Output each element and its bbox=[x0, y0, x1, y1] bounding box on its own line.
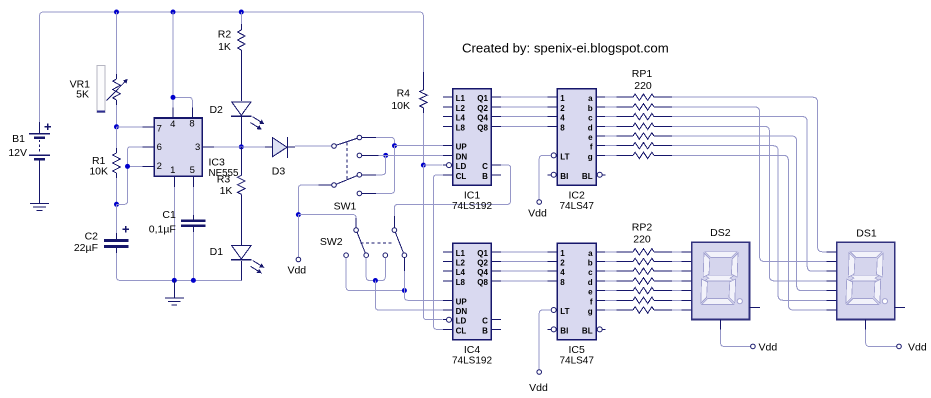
wire Vdd node to terminal bbox=[297, 215, 299, 257]
svg-text:f: f bbox=[590, 297, 593, 306]
wire node to R1 bbox=[116, 127, 118, 148]
svg-text:R4: R4 bbox=[397, 88, 411, 100]
svg-text:c: c bbox=[588, 268, 593, 277]
node Vdd junction bbox=[296, 212, 301, 217]
node pin3-D2-D3-R3 bbox=[239, 144, 244, 149]
wire node to IC4 DN bbox=[375, 281, 443, 311]
svg-text:3: 3 bbox=[195, 142, 200, 153]
svg-text:0,1µF: 0,1µF bbox=[149, 223, 176, 235]
wire SW1 pole2 to Vdd node bbox=[298, 185, 331, 215]
svg-text:220: 220 bbox=[634, 80, 652, 92]
wire SW1 throw1b to DN node bbox=[362, 154, 378, 156]
svg-text:RP1: RP1 bbox=[632, 68, 653, 80]
svg-text:BL: BL bbox=[582, 326, 593, 335]
svg-text:22µF: 22µF bbox=[74, 242, 98, 254]
svg-text:f: f bbox=[590, 143, 593, 152]
label R4 bbox=[397, 88, 411, 100]
svg-text:e: e bbox=[588, 288, 593, 297]
label D2 bbox=[209, 104, 223, 116]
label R3 1K bbox=[220, 185, 233, 197]
svg-text:b: b bbox=[588, 259, 593, 268]
label B1 bbox=[12, 133, 25, 145]
counter IC1 74LS192 bbox=[443, 89, 501, 212]
wire rail to pins 4 8 bbox=[173, 12, 192, 108]
svg-text:RP2: RP2 bbox=[632, 222, 653, 234]
svg-text:IC1: IC1 bbox=[464, 190, 481, 202]
node ground junction bbox=[172, 278, 177, 283]
ground battery bbox=[30, 203, 49, 210]
svg-text:UP: UP bbox=[456, 143, 468, 152]
svg-text:B1: B1 bbox=[12, 133, 25, 145]
label SW1 bbox=[334, 200, 357, 212]
svg-text:74LS47: 74LS47 bbox=[559, 355, 594, 366]
svg-text:C: C bbox=[482, 317, 488, 326]
svg-text:74LS192: 74LS192 bbox=[452, 355, 492, 366]
svg-text:BL: BL bbox=[582, 172, 593, 181]
wire C2 to ground rail bbox=[117, 253, 242, 280]
svg-text:CL: CL bbox=[456, 172, 467, 181]
svg-text:BI: BI bbox=[560, 326, 568, 335]
switch SW2 bbox=[344, 228, 407, 258]
label DS1 bbox=[856, 228, 877, 240]
LED D1 bbox=[231, 246, 264, 274]
capacitor C2 bbox=[104, 204, 129, 253]
label RP1 bbox=[632, 68, 653, 80]
wire segment d to DS1 bbox=[672, 126, 827, 281]
svg-text:1: 1 bbox=[560, 249, 565, 258]
wire segment a to DS1 bbox=[672, 97, 827, 252]
wire R1 to node bbox=[116, 178, 118, 204]
svg-text:d: d bbox=[588, 123, 593, 132]
svg-text:1K: 1K bbox=[218, 41, 231, 53]
wire D1 to ground rail bbox=[240, 261, 242, 281]
wire IC1 Q8 to IC2 bbox=[501, 125, 548, 127]
svg-text:C1: C1 bbox=[162, 209, 176, 221]
node rail-VR1 junction bbox=[114, 10, 119, 15]
counter IC4 74LS192 bbox=[443, 243, 501, 366]
svg-text:D2: D2 bbox=[209, 104, 223, 116]
svg-text:1: 1 bbox=[560, 94, 565, 103]
capacitor C1 bbox=[181, 215, 206, 232]
label R2 bbox=[218, 28, 232, 40]
svg-text:Q1: Q1 bbox=[477, 94, 488, 103]
resistor R4 bbox=[420, 72, 428, 113]
switch SW1 bbox=[332, 135, 362, 196]
resistor R1 bbox=[113, 148, 121, 178]
svg-text:Vdd: Vdd bbox=[529, 382, 548, 394]
label RP1 220 bbox=[634, 80, 652, 92]
title text bbox=[462, 40, 669, 55]
wire LD node to IC4 LD bbox=[423, 165, 442, 320]
node pin4-8 branch bbox=[171, 95, 176, 100]
wire pin3 to node bbox=[214, 146, 241, 148]
svg-text:8: 8 bbox=[560, 123, 565, 132]
svg-text:UP: UP bbox=[456, 297, 468, 306]
label Vdd IC5 bbox=[529, 382, 548, 394]
svg-text:IC2: IC2 bbox=[569, 190, 586, 202]
wire IC5 LT to Vdd bbox=[539, 310, 551, 370]
pin 3 label bbox=[195, 142, 200, 153]
wire VR1 to node bbox=[116, 105, 118, 127]
label Vdd IC2 bbox=[528, 208, 547, 220]
svg-text:B: B bbox=[482, 326, 488, 335]
node rail-R2 junction bbox=[239, 10, 244, 15]
wire D3 to SW1 bbox=[295, 145, 331, 147]
svg-text:g: g bbox=[588, 307, 593, 316]
svg-text:Vdd: Vdd bbox=[908, 341, 927, 353]
wire IC1 Q1 to IC2 bbox=[501, 96, 548, 98]
wire SW2 pole2 to carry net bbox=[394, 169, 510, 228]
label RP2 220 bbox=[633, 234, 651, 246]
wire segment c to DS1 bbox=[672, 117, 827, 272]
label DS2 bbox=[710, 227, 731, 239]
svg-text:DN: DN bbox=[456, 152, 468, 161]
node C1 ground bbox=[191, 278, 196, 283]
pin 6 label bbox=[157, 142, 162, 153]
display DS2 bbox=[681, 242, 777, 353]
label D1 bbox=[210, 246, 224, 258]
node VR1-R1-pin7 bbox=[114, 124, 119, 129]
svg-text:5: 5 bbox=[190, 165, 195, 176]
svg-text:LT: LT bbox=[560, 152, 569, 161]
wire Vdd node to SW2 pole1 bbox=[298, 215, 356, 228]
svg-text:Q4: Q4 bbox=[477, 268, 488, 277]
svg-text:220: 220 bbox=[633, 234, 651, 246]
svg-text:D3: D3 bbox=[272, 166, 286, 178]
svg-text:7: 7 bbox=[157, 124, 162, 135]
svg-text:8: 8 bbox=[189, 118, 194, 129]
label R1 10K bbox=[89, 165, 108, 177]
svg-text:L8: L8 bbox=[456, 123, 466, 132]
wire segment b to DS1 bbox=[672, 107, 827, 262]
decoder IC5 74LS47 bbox=[548, 243, 606, 366]
svg-text:IC4: IC4 bbox=[464, 344, 481, 356]
battery B1 bbox=[29, 122, 51, 203]
label R3 bbox=[217, 173, 231, 185]
svg-text:Vdd: Vdd bbox=[759, 341, 778, 353]
pin 7 label bbox=[157, 124, 162, 135]
wire UP node to throw2b bbox=[362, 146, 395, 194]
node IC4 UP junction bbox=[402, 288, 407, 293]
wire pin1 down bbox=[173, 187, 175, 280]
wire IC1 Q4 to IC2 bbox=[501, 116, 548, 118]
svg-text:L8: L8 bbox=[456, 278, 466, 287]
label D3 bbox=[272, 166, 286, 178]
svg-text:DN: DN bbox=[456, 307, 468, 316]
svg-text:C2: C2 bbox=[85, 230, 99, 242]
wire D2 to node bbox=[240, 117, 242, 147]
svg-text:L2: L2 bbox=[456, 259, 466, 268]
svg-text:b: b bbox=[588, 104, 593, 113]
node DN junction bbox=[383, 153, 388, 158]
svg-text:10K: 10K bbox=[391, 100, 410, 112]
diode D3 bbox=[241, 137, 295, 158]
label C2 bbox=[85, 230, 99, 242]
svg-text:C: C bbox=[482, 162, 488, 171]
potentiometer VR1 bbox=[97, 66, 128, 113]
svg-text:LD: LD bbox=[456, 162, 467, 171]
svg-text:4: 4 bbox=[560, 268, 565, 277]
wire IC2 LT to Vdd bbox=[539, 155, 551, 199]
svg-text:g: g bbox=[588, 152, 593, 161]
wire IC4 Q2 to IC5 bbox=[501, 261, 548, 263]
LED D2 bbox=[231, 102, 264, 130]
label R4 10K bbox=[391, 100, 410, 112]
svg-text:DS2: DS2 bbox=[710, 227, 731, 239]
svg-text:1K: 1K bbox=[220, 185, 233, 197]
label VR1 5K bbox=[76, 89, 89, 101]
wire node to pin2/6 bbox=[117, 147, 143, 204]
timer IC3 NE555 bbox=[143, 108, 214, 188]
svg-text:Q2: Q2 bbox=[477, 104, 488, 113]
wire IC1 C to SW2 net bbox=[501, 165, 511, 170]
label R2 1K bbox=[218, 41, 231, 53]
terminal Vdd SW bbox=[296, 257, 301, 262]
wire rail to VR1 bbox=[116, 12, 118, 74]
svg-text:4: 4 bbox=[170, 119, 175, 130]
label R1 bbox=[92, 155, 106, 167]
label VR1 bbox=[70, 79, 91, 91]
label SW2 bbox=[320, 236, 343, 248]
pin 4 label bbox=[170, 119, 175, 130]
label RP2 bbox=[632, 222, 653, 234]
terminal Vdd IC2 bbox=[537, 200, 542, 205]
wire R4 to LD node bbox=[422, 113, 424, 165]
label 12V bbox=[8, 147, 27, 159]
svg-text:L1: L1 bbox=[456, 94, 466, 103]
svg-text:2: 2 bbox=[157, 161, 162, 172]
node pin2 junction bbox=[125, 164, 130, 169]
wire pin5 to C1 bbox=[192, 187, 194, 215]
wire SW2 throw2-throw3 link bbox=[366, 258, 385, 281]
label IC3 bbox=[209, 156, 226, 168]
svg-text:L2: L2 bbox=[456, 104, 466, 113]
svg-text:Vdd: Vdd bbox=[287, 264, 306, 276]
ground IC3 bbox=[165, 280, 184, 305]
wire IC1 Q2 to IC2 bbox=[501, 106, 548, 108]
label C1 0.1uF bbox=[149, 223, 176, 235]
wire segment f to DS1 bbox=[672, 146, 827, 301]
svg-text:R3: R3 bbox=[217, 173, 231, 185]
pin 2 label bbox=[157, 161, 162, 172]
svg-text:4: 4 bbox=[560, 114, 565, 123]
pin 5 label bbox=[190, 165, 195, 176]
svg-text:Q4: Q4 bbox=[477, 114, 488, 123]
decoder IC2 74LS47 bbox=[548, 89, 606, 212]
wire DN node to IC1 bbox=[378, 154, 443, 156]
wire SW2 throw1 to IC4-UP node bbox=[346, 258, 404, 291]
node UP junction bbox=[392, 143, 397, 148]
svg-text:8: 8 bbox=[560, 278, 565, 287]
svg-text:DS1: DS1 bbox=[856, 228, 877, 240]
wire IC4 Q8 to IC5 bbox=[501, 280, 548, 282]
node LD junction bbox=[421, 163, 426, 168]
svg-text:d: d bbox=[588, 278, 593, 287]
svg-text:5K: 5K bbox=[76, 89, 89, 101]
wire segment g to DS1 bbox=[672, 155, 827, 310]
wire IC4 Q1 to IC5 bbox=[501, 251, 548, 253]
resistor R2 bbox=[238, 12, 246, 101]
wire C1 to ground rail bbox=[192, 232, 194, 280]
label C2 22uF bbox=[74, 242, 98, 254]
svg-text:SW1: SW1 bbox=[334, 200, 357, 212]
svg-text:BI: BI bbox=[560, 172, 568, 181]
svg-text:1: 1 bbox=[170, 165, 175, 176]
svg-text:SW2: SW2 bbox=[320, 236, 343, 248]
resistor pack RP1 220 bbox=[605, 94, 672, 159]
wire UP node to IC1 bbox=[395, 145, 444, 147]
svg-text:Q8: Q8 bbox=[477, 278, 488, 287]
label NE555 bbox=[209, 168, 240, 179]
wire IC4 Q4 to IC5 bbox=[501, 270, 548, 272]
svg-text:IC5: IC5 bbox=[569, 344, 586, 356]
svg-text:10K: 10K bbox=[89, 165, 108, 177]
node R1-C2-trigger bbox=[114, 202, 119, 207]
svg-text:2: 2 bbox=[560, 104, 565, 113]
node rail-IC3 junction bbox=[171, 10, 176, 15]
node IC4 DN junction bbox=[373, 278, 378, 283]
wire SW1 throw1a to UP node bbox=[362, 138, 395, 146]
svg-text:c: c bbox=[588, 114, 593, 123]
wire IC1 CL to IC4 CL bbox=[434, 175, 443, 330]
svg-text:Vdd: Vdd bbox=[528, 208, 547, 220]
svg-text:B: B bbox=[482, 172, 488, 181]
svg-text:Q2: Q2 bbox=[477, 259, 488, 268]
wire LD node to IC1 LD bbox=[423, 164, 442, 166]
svg-text:LT: LT bbox=[560, 307, 569, 316]
wire SW2 throw4 to node bbox=[403, 258, 405, 291]
svg-text:74LS47: 74LS47 bbox=[559, 201, 594, 212]
svg-text:R2: R2 bbox=[218, 28, 232, 40]
terminal Vdd IC5 bbox=[537, 370, 542, 375]
svg-text:L4: L4 bbox=[456, 268, 466, 277]
wire node to IC4 UP bbox=[404, 291, 443, 301]
label C1 bbox=[162, 209, 176, 221]
svg-text:LD: LD bbox=[456, 317, 467, 326]
pin 1 label bbox=[170, 165, 175, 176]
svg-text:74LS192: 74LS192 bbox=[452, 201, 492, 212]
svg-text:e: e bbox=[588, 133, 593, 142]
svg-text:a: a bbox=[588, 94, 593, 103]
display DS1 bbox=[827, 242, 927, 353]
svg-text:a: a bbox=[588, 249, 593, 258]
wire top power rail bbox=[40, 12, 424, 122]
resistor pack RP2 220 bbox=[605, 249, 682, 314]
resistor R3 bbox=[238, 147, 246, 246]
svg-text:CL: CL bbox=[456, 326, 467, 335]
svg-text:Q1: Q1 bbox=[477, 249, 488, 258]
svg-text:6: 6 bbox=[157, 142, 162, 153]
svg-text:12V: 12V bbox=[8, 147, 27, 159]
label Vdd SW bbox=[287, 264, 306, 276]
svg-text:2: 2 bbox=[560, 259, 565, 268]
svg-text:IC3: IC3 bbox=[209, 156, 226, 168]
wire segment e to DS1 bbox=[672, 136, 827, 291]
svg-text:L1: L1 bbox=[456, 249, 466, 258]
wire node to IC3 pin7 bbox=[117, 126, 143, 128]
svg-text:Created by: spenix-ei.blogspo: Created by: spenix-ei.blogspot.com bbox=[462, 40, 669, 55]
svg-text:D1: D1 bbox=[210, 246, 224, 258]
pin 8 label bbox=[189, 118, 194, 129]
svg-text:Q8: Q8 bbox=[477, 123, 488, 132]
svg-text:L4: L4 bbox=[456, 114, 466, 123]
wire DN node to throw2a bbox=[362, 155, 386, 174]
